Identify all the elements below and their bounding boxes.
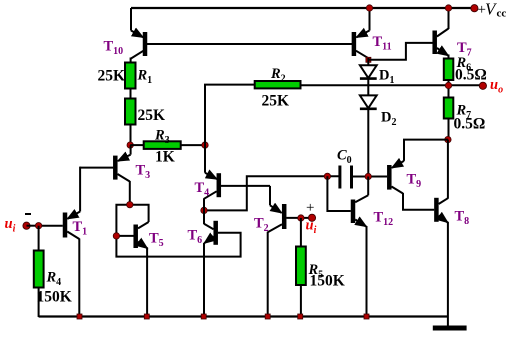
- node T11 collector / D1 anode: [366, 57, 371, 62]
- node top rail T7: [445, 5, 451, 11]
- node rail T12 emitter: [364, 314, 369, 319]
- ground: [433, 326, 467, 331]
- transistor T4: [204, 173, 270, 211]
- wire between R1 and second 25K: [130, 89, 132, 100]
- wire D1 cathode to D2 anode: [367, 79, 369, 96]
- wire C0 right to node E and T9 base: [352, 176, 388, 178]
- resistor R5: [296, 247, 306, 286]
- wire T12 base drop: [327, 176, 350, 211]
- wire u_i terminal to base junction: [27, 225, 39, 227]
- transistor T10: [131, 8, 145, 64]
- wire bottom rail: [39, 315, 448, 317]
- svg-text:0.5Ω: 0.5Ω: [454, 116, 486, 133]
- node output junction R6/R7: [445, 82, 451, 88]
- diode D1: [360, 58, 377, 79]
- svg-text:25K: 25K: [138, 107, 166, 124]
- node F junction R7/T9 emitter/T8 collector: [445, 136, 451, 142]
- svg-text:25K: 25K: [98, 68, 126, 85]
- resistor R6: [444, 59, 454, 81]
- wire R4 bottom to rail: [38, 287, 40, 317]
- node rail T2 collector: [265, 314, 270, 319]
- node C junction T4 collector/T6 collector/wire to C0: [201, 207, 207, 213]
- node top rail T11: [366, 5, 372, 11]
- svg-text:150K: 150K: [310, 273, 345, 290]
- transistor T1: [39, 212, 81, 317]
- wire R7 bottom to node F: [448, 119, 450, 140]
- terminal u_o: [479, 82, 486, 89]
- svg-text:cc: cc: [497, 8, 507, 20]
- resistor R7: [444, 98, 454, 119]
- wire T3 base to T1 emitter: [79, 167, 81, 212]
- node T5 base junction: [113, 233, 119, 239]
- wire R5 top: [300, 218, 302, 247]
- svg-text:25K: 25K: [262, 93, 290, 110]
- terminal +Vcc: [471, 5, 478, 12]
- node E junction C0/D2/T12 collector/T9 base: [365, 173, 371, 179]
- transistor T12: [353, 177, 368, 317]
- terminal u_i minus input: [23, 222, 30, 229]
- wire R6 bottom to output node: [448, 80, 450, 98]
- node junction R4 top: [35, 223, 41, 229]
- wire T11 collector node to T7 base: [368, 43, 432, 60]
- node A junction R-chain/R3/T3: [127, 142, 133, 148]
- transistor T11: [354, 8, 370, 58]
- transistor T5: [116, 205, 148, 317]
- wire base T10 to base T11: [145, 43, 354, 45]
- node rail T5 emitter: [144, 314, 149, 319]
- node junction T2 base / R5: [298, 215, 304, 221]
- wire R5 bottom to rail: [300, 285, 302, 317]
- svg-text:+: +: [306, 200, 314, 216]
- transistor T9: [389, 140, 448, 210]
- resistor R2: [255, 81, 301, 88]
- wire D2 cathode to node E: [367, 109, 369, 177]
- resistor R4: [34, 251, 44, 288]
- label minus sign: [25, 213, 31, 215]
- transistor T8: [436, 140, 448, 327]
- resistor R3: [130, 141, 205, 149]
- transistor T7: [435, 8, 449, 59]
- node rail T1 collector: [77, 314, 82, 319]
- wire top +Vcc rail: [131, 7, 474, 9]
- transistor T2: [268, 186, 312, 317]
- resistor R1: [125, 63, 136, 89]
- svg-text:0.5Ω: 0.5Ω: [455, 67, 487, 84]
- diode D2: [360, 95, 377, 108]
- capacitor C0: [340, 166, 352, 189]
- wire second 25K to node A: [130, 125, 132, 146]
- transistor T6: [116, 210, 240, 316]
- svg-text:1K: 1K: [155, 149, 175, 166]
- transistor T3: [80, 145, 131, 205]
- node T3 collector/T5 top: [127, 202, 133, 208]
- node rail R5: [298, 314, 303, 319]
- svg-text:150K: 150K: [37, 289, 72, 306]
- wire C0 left to node D and down-left to node C: [204, 176, 340, 210]
- wire output line R2 right to u_o terminal: [301, 84, 484, 86]
- wire R4 junction down: [38, 226, 40, 251]
- wire R2 left vertical to T4 emitter: [205, 85, 255, 173]
- node B junction R3/R2-left/T4 emitter: [202, 142, 208, 148]
- node rail T6 emitter: [201, 314, 206, 319]
- node D junction C0 left / T12 base: [324, 173, 330, 179]
- terminal u_i plus input: [308, 214, 315, 221]
- resistor 25K second: [125, 99, 136, 125]
